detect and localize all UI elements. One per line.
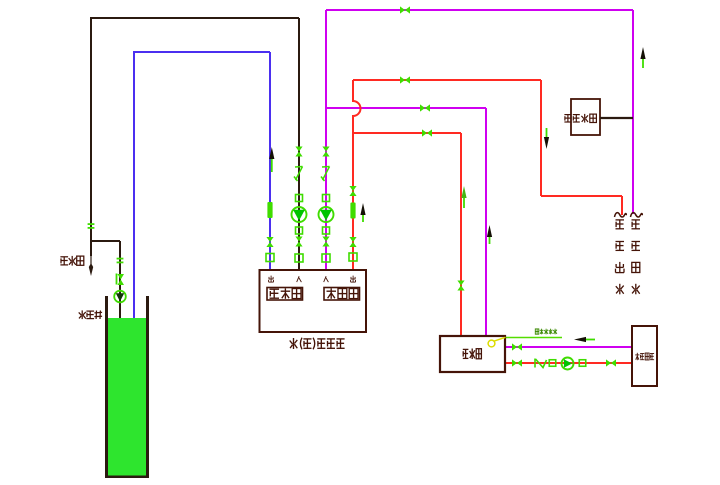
- label condenser 冷凝器: [327, 288, 359, 299]
- valve on magenta top header: [400, 6, 410, 13]
- check valve on red tank outlet: [534, 359, 536, 368]
- flange on blue riser: [266, 254, 274, 262]
- valve under pump magenta: [322, 237, 329, 247]
- label heating users 采暖用户: [635, 353, 654, 360]
- label water source well 水源井: [79, 310, 102, 319]
- wire red drop: [540, 80, 542, 196]
- union on black drop: [88, 223, 95, 229]
- flange at unit outlet red: [349, 253, 357, 261]
- wire red AC supply header: [353, 79, 541, 81]
- flow arrow up on red drop to tank: [461, 186, 466, 208]
- label sand filter 滤沙器: [60, 256, 83, 266]
- pipe break squiggle AC supply: [615, 213, 627, 217]
- pump on magenta riser: [319, 207, 334, 222]
- wire blue return header: [133, 51, 270, 53]
- flow arrow up on magenta drop: [487, 225, 492, 244]
- check valve on magenta riser: [321, 167, 330, 182]
- flange under pump magenta: [323, 227, 330, 234]
- flow arrow left on makeup line: [574, 337, 595, 342]
- wire magenta branch to hot water tank: [326, 107, 486, 109]
- wire black stub to well pump: [92, 240, 120, 242]
- square fitting on red outlet 2: [579, 360, 586, 367]
- valve on blue riser: [266, 237, 273, 247]
- flow arrow down on red drop: [544, 128, 549, 149]
- valve on red tank outlet: [512, 359, 522, 366]
- sand filter element tip: [90, 256, 92, 264]
- valve on magenta riser: [322, 147, 329, 157]
- wire magenta drop to hot water tank: [485, 108, 487, 336]
- square fitting on red outlet: [549, 360, 556, 367]
- flow arrow up on blue riser: [269, 147, 274, 172]
- wire black supply header top: [90, 17, 299, 19]
- wire black well suction pipe: [119, 241, 121, 318]
- wire red stub to AC supply break: [621, 196, 623, 215]
- foot check valve on well pipe: [117, 274, 125, 286]
- butterfly valve on blue riser: [267, 202, 272, 218]
- label in pipe3: [324, 276, 329, 282]
- wire magenta AC return header top: [326, 9, 633, 11]
- flange on black drop: [296, 195, 303, 202]
- valve on red AC supply header: [400, 76, 410, 83]
- evaporator box: [267, 288, 303, 301]
- flow arrow up beside magenta AC return: [640, 47, 645, 68]
- wire magenta tank outlet to user: [505, 346, 632, 348]
- wire red riser condenser out with crossover hop: [353, 80, 361, 271]
- label tap water makeup 自来水补水: [535, 329, 557, 335]
- butterfly valve on red riser: [350, 203, 355, 219]
- flange at unit inlet magenta: [322, 254, 330, 262]
- wire blue drop into well: [133, 52, 135, 319]
- wire green tap-water makeup line: [505, 337, 562, 339]
- wire magenta riser condenser in: [325, 10, 327, 271]
- wire red tank outlet to user: [505, 362, 632, 364]
- valve on red tank branch: [422, 129, 432, 136]
- wire black expansion tank link: [600, 117, 633, 119]
- expansion tank box: [571, 99, 600, 135]
- wire blue riser from evaporator out: [269, 52, 271, 271]
- water source well walls: [105, 296, 108, 478]
- valve on red riser: [349, 237, 356, 247]
- valve on red drop to tank: [457, 281, 464, 291]
- upper valve on red riser: [349, 186, 356, 196]
- hot water tank box: [440, 336, 505, 372]
- label AC outlet water 空调出水: [616, 220, 625, 294]
- label out pipe4: [351, 276, 356, 283]
- wire black drop to sand filter: [90, 17, 92, 256]
- valve near user on red line: [606, 359, 616, 366]
- label hot water tank 热水箱: [463, 349, 482, 360]
- union on well pipe: [117, 258, 124, 264]
- condenser box: [324, 288, 360, 301]
- flange under pump black: [296, 227, 303, 234]
- label evaporator 蒸发器: [270, 288, 302, 299]
- flange on magenta riser: [323, 195, 330, 202]
- flange at unit inlet black: [295, 254, 303, 262]
- wire magenta drop to AC return: [632, 10, 634, 214]
- float valve (yellow) on hot water tank: [488, 337, 505, 347]
- wire black drop into heat pump (evaporator in): [298, 18, 300, 271]
- label AC return water 空调回水: [632, 220, 641, 294]
- flow arrow up beside red riser: [360, 203, 365, 222]
- well water green fill: [108, 318, 146, 476]
- heat pump unit box: [260, 270, 367, 332]
- pipe break squiggle AC return: [631, 213, 643, 217]
- label out pipe1: [269, 276, 274, 283]
- user terminal box: [632, 326, 657, 386]
- well pump: [114, 291, 126, 303]
- pump on black drop: [292, 207, 307, 222]
- wire red run to AC supply: [541, 195, 622, 197]
- label heat pump 水(地)源热泵: [290, 338, 345, 350]
- check valve on black drop: [294, 167, 303, 182]
- wire red branch to hot water tank: [353, 132, 461, 134]
- valve on black drop: [295, 147, 302, 157]
- valve on magenta tank branch: [420, 104, 430, 111]
- label expansion tank 膨胀水箱: [564, 114, 596, 123]
- circulation pump on red outlet: [562, 358, 574, 370]
- label in pipe2: [297, 276, 302, 282]
- valve under pump black: [295, 237, 302, 247]
- valve on magenta tank outlet: [512, 343, 522, 350]
- wire red drop to hot water tank: [460, 133, 462, 336]
